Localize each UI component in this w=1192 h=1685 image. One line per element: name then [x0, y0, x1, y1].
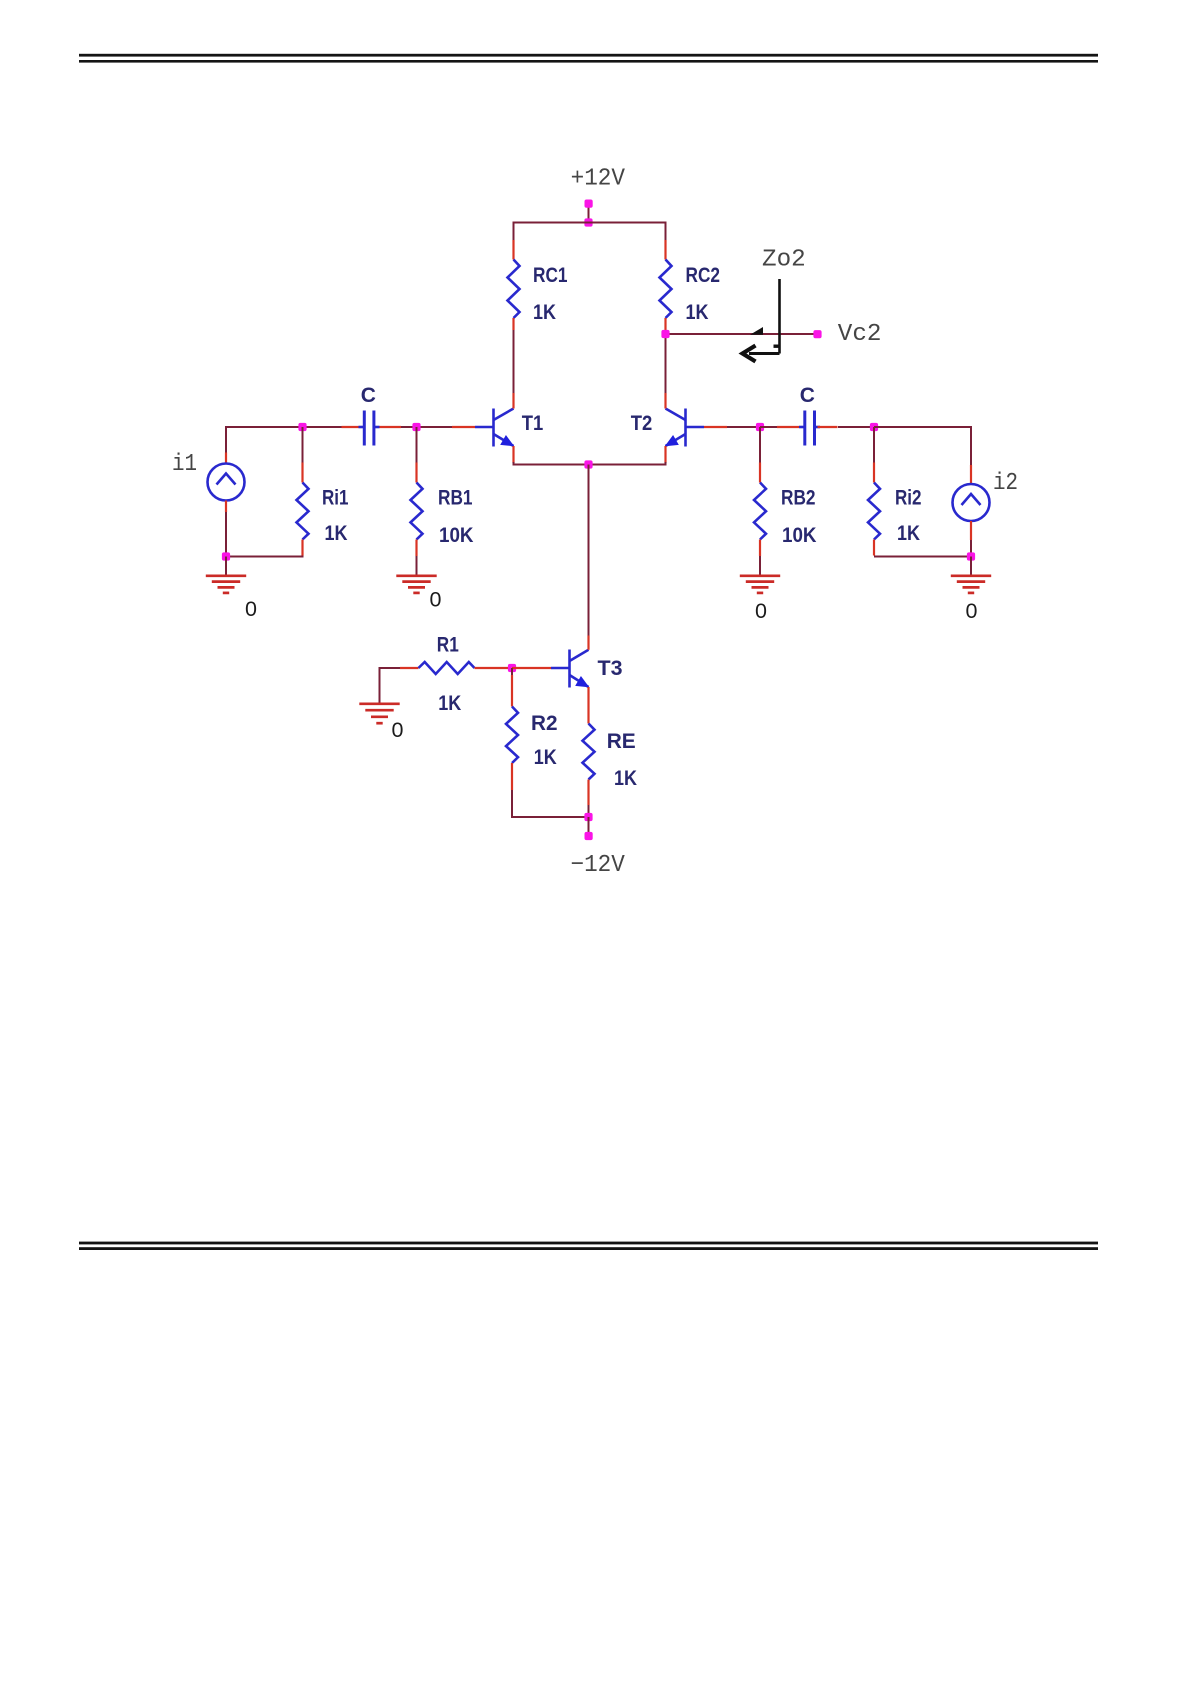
wire bottom rail — [511, 790, 589, 817]
power -12V — [571, 813, 626, 879]
wire R1 to ground corner — [380, 667, 401, 704]
svg-text:1K: 1K — [897, 522, 920, 545]
svg-text:RB1: RB1 — [438, 487, 473, 510]
ground RB1 — [396, 556, 441, 612]
resistor R1 — [400, 634, 512, 716]
svg-text:0: 0 — [245, 597, 257, 621]
svg-text:1K: 1K — [438, 692, 461, 715]
junction Ri1 top — [298, 423, 306, 431]
svg-text:Ri2: Ri2 — [895, 487, 922, 510]
wire tail to T3 — [588, 465, 590, 636]
transistor T1 — [452, 393, 543, 463]
svg-text:i2: i2 — [993, 470, 1018, 497]
junction RB1 top — [412, 423, 420, 431]
svg-text:Ri1: Ri1 — [322, 487, 349, 510]
svg-text:0: 0 — [755, 599, 767, 623]
capacitor C right — [777, 384, 838, 446]
svg-text:R2: R2 — [531, 712, 558, 735]
wire input left — [226, 426, 303, 453]
wire Ri1 bottom — [226, 556, 304, 558]
wire cap right to Ri2 node — [838, 426, 874, 428]
power +12V — [571, 166, 626, 227]
current source i2 — [953, 465, 1019, 557]
resistor Ri2 — [868, 427, 922, 556]
wire emitter tie — [513, 462, 667, 465]
wire Vc2 output — [666, 333, 817, 335]
wire RB2 node to cap right — [760, 426, 777, 428]
svg-text:R1: R1 — [437, 634, 459, 657]
svg-text:RE: RE — [607, 730, 636, 753]
resistor Ri1 — [297, 427, 349, 556]
wire node A — [303, 426, 342, 428]
node Vc2 — [661, 321, 881, 348]
wire Ri2 node to i2 — [874, 426, 971, 465]
svg-text:RC2: RC2 — [686, 264, 721, 287]
current source i1 — [172, 451, 245, 557]
svg-text:RB2: RB2 — [781, 487, 816, 510]
wire Ri2 bottom — [874, 556, 971, 558]
junction i2 ground node — [967, 552, 975, 560]
wire RC1 to T1 collector — [513, 330, 515, 393]
junction RB2 top — [756, 423, 764, 431]
svg-text:0: 0 — [966, 599, 978, 623]
junction i1 ground node — [222, 552, 230, 560]
resistor RE — [583, 703, 638, 817]
wire cap to RB1 node — [401, 426, 452, 428]
svg-text:0: 0 — [430, 588, 442, 612]
junction Ri2 top — [870, 423, 878, 431]
svg-text:i1: i1 — [172, 451, 197, 478]
svg-text:+12V: +12V — [571, 166, 626, 193]
svg-text:Zo2: Zo2 — [762, 247, 806, 274]
junction tail node — [584, 460, 592, 468]
svg-text:C: C — [361, 384, 376, 407]
svg-text:1K: 1K — [533, 301, 556, 324]
transistor T2 — [631, 393, 727, 463]
capacitor C left — [342, 384, 402, 446]
svg-text:−12V: −12V — [571, 852, 626, 879]
svg-text:C: C — [800, 384, 815, 407]
probe Zo2 — [743, 247, 806, 362]
resistor RC2 — [660, 240, 721, 330]
resistor RB1 — [411, 427, 474, 556]
resistor R2 — [506, 668, 558, 790]
svg-text:10K: 10K — [439, 524, 474, 547]
svg-text:10K: 10K — [782, 524, 817, 547]
junction R2 top — [508, 664, 516, 672]
wire T2 base to RB2 node — [727, 426, 760, 428]
resistor RB2 — [754, 427, 817, 556]
svg-text:1K: 1K — [325, 522, 348, 545]
wire RC2 to T2 collector — [665, 330, 667, 393]
ground i2 — [951, 557, 991, 624]
svg-text:1K: 1K — [614, 767, 637, 790]
ground i1 — [206, 557, 257, 622]
svg-text:RC1: RC1 — [533, 264, 568, 287]
svg-text:Vc2: Vc2 — [838, 321, 882, 348]
wire top rail — [514, 222, 666, 241]
wire R2 node to T3 base — [512, 667, 551, 669]
ground RB2 — [740, 556, 780, 623]
svg-text:T1: T1 — [522, 412, 544, 435]
svg-text:1K: 1K — [534, 746, 557, 769]
svg-text:0: 0 — [392, 718, 404, 742]
svg-text:T3: T3 — [598, 657, 623, 680]
transistor T3 — [551, 636, 623, 704]
resistor RC1 — [508, 240, 568, 330]
svg-text:T2: T2 — [631, 412, 653, 435]
svg-text:1K: 1K — [686, 301, 709, 324]
ground R1 — [359, 704, 403, 742]
